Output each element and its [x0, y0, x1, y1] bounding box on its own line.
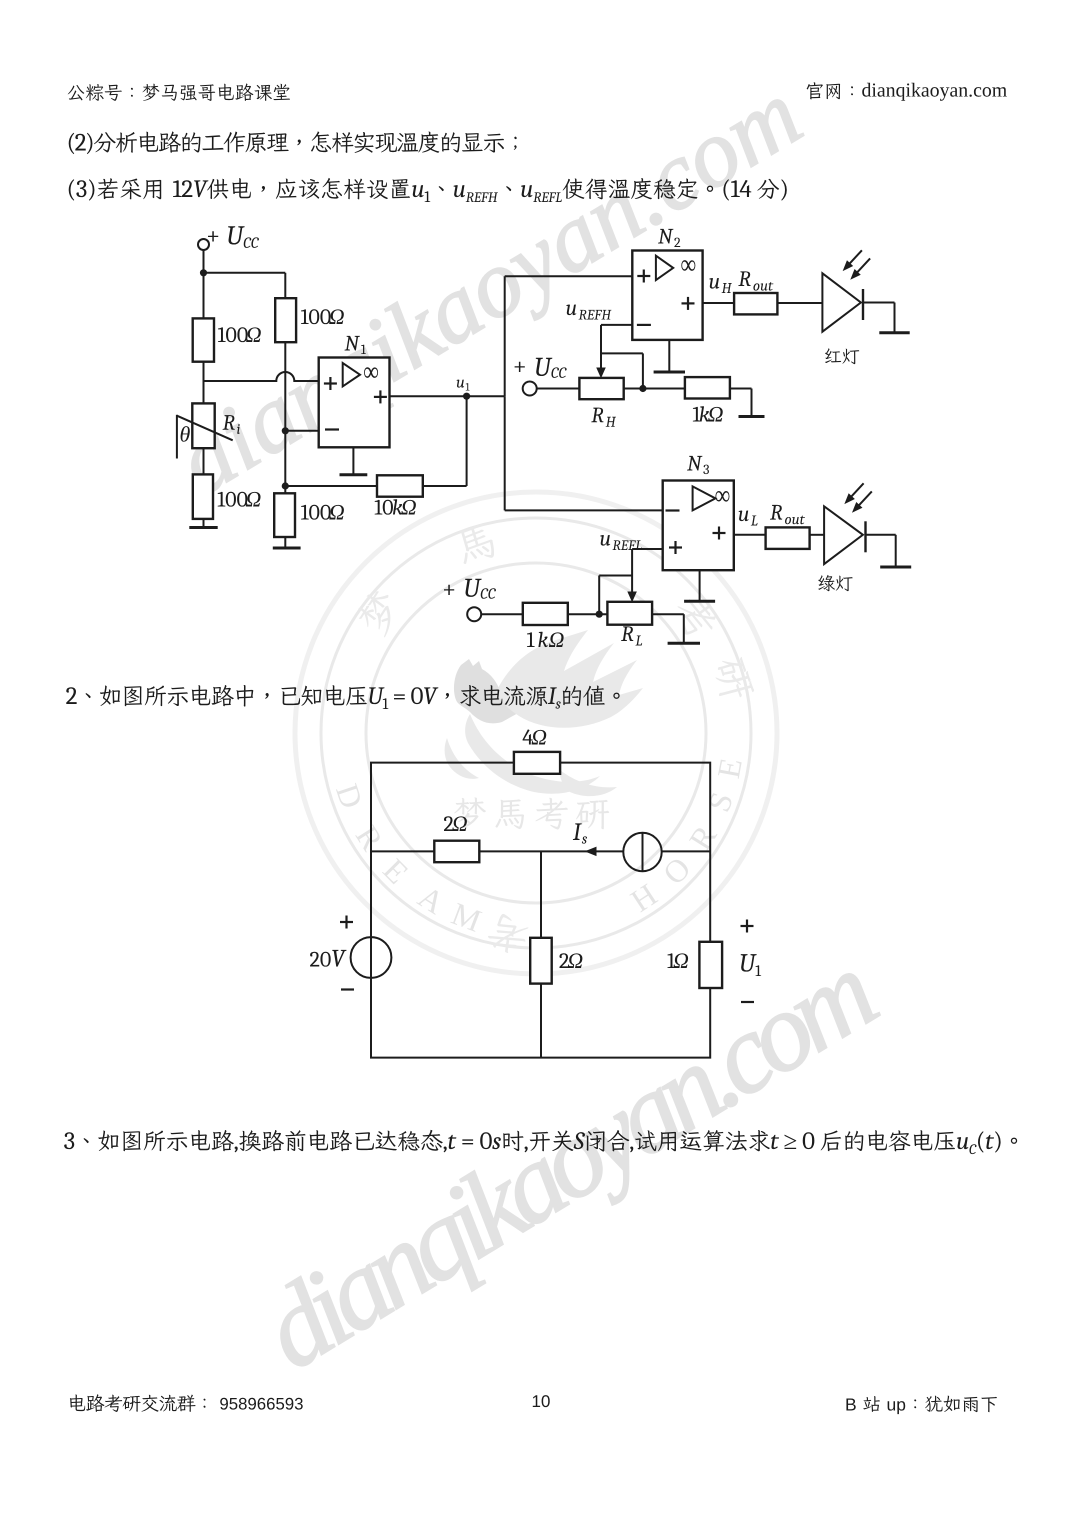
watermark DREAM text — [336, 783, 483, 932]
wire node D to R4 — [284, 486, 286, 493]
label RL — [621, 626, 642, 645]
label RH — [591, 408, 616, 427]
label 2ohm vertical — [559, 953, 582, 968]
terminal +Ucc top — [198, 239, 209, 250]
wire LED2 to ground — [866, 534, 896, 536]
wire Ucc to R7 1k — [481, 613, 523, 615]
label +Ucc top — [208, 226, 259, 248]
label uL — [739, 511, 758, 526]
wire Rout2 to LED2 — [810, 534, 825, 536]
resistor R4 100ohm bottom mid — [274, 493, 295, 537]
op-amp N2 output plus marker — [682, 297, 695, 310]
op-amp N2 triangle — [656, 256, 673, 280]
resistor R5 10kohm feedback — [377, 475, 423, 496]
label +Ucc RL — [444, 579, 496, 599]
label 20V — [310, 950, 346, 967]
wire R1 to node B — [203, 362, 205, 404]
label R1 100ohm — [218, 327, 261, 342]
label R2 100ohm — [301, 309, 344, 324]
label R7 1kohm — [527, 632, 564, 647]
wire mid column through hump — [284, 342, 286, 486]
resistor Rout2 — [766, 527, 810, 549]
arrow uREFH wiper — [597, 368, 605, 377]
ground op-amp N3 — [699, 570, 701, 600]
label uH — [709, 278, 732, 293]
ground R6 — [751, 389, 753, 416]
wire RH to R6 1k — [624, 388, 685, 390]
wire RL to ground — [652, 613, 684, 615]
wire mid column top — [284, 273, 286, 298]
voltage source 20V plus marker — [340, 916, 353, 929]
header left text — [68, 84, 290, 101]
label U1 — [741, 954, 761, 976]
wire Ucc to RH — [536, 388, 579, 390]
op-amp N1 box — [319, 358, 390, 448]
terminal +Ucc RL — [467, 607, 481, 621]
resistor 2ohm middle branch — [434, 841, 479, 863]
wire node C to opamp minus input — [285, 430, 318, 432]
footer page number — [533, 1395, 550, 1407]
op-amp N2 plus input marker — [637, 270, 650, 283]
wire uREFL to RL left node — [599, 575, 632, 577]
arrow Is direction — [586, 847, 596, 855]
op-amp N3 minus input marker — [666, 509, 680, 511]
circuit2 outer loop wire — [371, 763, 710, 1058]
op-amp N1 output plus marker — [374, 390, 387, 403]
wire N1 output to riser — [390, 395, 505, 397]
ground op-amp N1 — [352, 447, 354, 474]
op-amp N2 infinity — [681, 260, 695, 271]
LED1 cathode bar — [862, 289, 864, 320]
watermark seal characters band — [352, 522, 755, 955]
label Ri — [223, 415, 240, 434]
resistor 2ohm vertical — [530, 938, 552, 984]
ground left column — [203, 519, 205, 527]
watermark ring inner — [366, 563, 706, 903]
label red lamp — [825, 348, 859, 364]
node RL junction — [596, 611, 603, 618]
op-amp N3 infinity — [715, 491, 729, 502]
wire riser to N2 plus input — [505, 275, 633, 277]
LED1 light arrows — [846, 250, 862, 267]
LED2 light arrows — [848, 483, 864, 500]
node RH junction — [639, 385, 646, 392]
wire middle vertical branch — [540, 851, 542, 937]
potentiometer RH — [579, 378, 623, 399]
watermark pegasus — [445, 630, 643, 796]
resistor R1 100ohm left — [193, 318, 214, 361]
node A junction — [200, 269, 207, 276]
wire Ucc to node A — [203, 250, 205, 318]
voltage source 20V minus marker — [341, 988, 354, 990]
label 1ohm — [667, 953, 688, 968]
label Is — [573, 823, 587, 843]
label N1 — [345, 336, 366, 354]
wire middle horizontal — [371, 850, 624, 852]
node C junction minus input — [282, 427, 289, 434]
LED2 cathode bar — [864, 521, 866, 552]
wire R5 to node u1 — [423, 485, 467, 487]
wire riser vertical — [504, 276, 506, 396]
current source Is circle — [623, 833, 661, 871]
ground LED2 — [895, 535, 897, 566]
label R3 100ohm — [218, 492, 261, 507]
resistor Rout1 — [734, 293, 777, 314]
wire node D to R5 10k — [285, 485, 377, 487]
problem 3 text — [64, 1130, 1017, 1154]
op-amp N3 triangle — [693, 486, 716, 510]
wire Rout1 to LED1 — [777, 302, 822, 304]
ground RL — [683, 614, 685, 642]
label 4ohm — [522, 730, 546, 745]
LED2 green diode triangle — [824, 506, 863, 564]
ground LED1 — [894, 303, 896, 332]
label u1 — [457, 380, 470, 391]
resistor R2 100ohm right — [275, 298, 296, 342]
wire N2 minus input to uREFH — [601, 324, 632, 326]
label uREFH — [566, 305, 611, 320]
problem 2 text — [66, 685, 619, 709]
label R4 100ohm — [301, 505, 344, 520]
resistor 4ohm — [514, 752, 560, 774]
node u1 junction — [463, 393, 470, 400]
resistor R7 1kohm — [523, 603, 568, 625]
watermark diagonal dianqikaoyan.com bottom — [255, 948, 893, 1391]
footer right text — [846, 1396, 997, 1415]
wire N2 output — [703, 302, 735, 304]
ground mid column — [284, 537, 286, 547]
label uREFL — [600, 535, 642, 550]
wire N3 plus input to uREFL — [632, 548, 663, 550]
paragraph (3) text — [69, 178, 787, 202]
wire riser to N3 minus input — [505, 509, 663, 511]
LED1 red diode triangle — [822, 273, 861, 331]
wire node A to mid column — [204, 272, 286, 274]
watermark seal center text — [454, 797, 609, 829]
op-amp N3 box — [663, 481, 734, 571]
op-amp N3 output plus marker — [713, 527, 726, 540]
label 2ohm top — [444, 816, 467, 831]
wire R7 to RL — [568, 613, 608, 615]
resistor R3 100ohm bottom left — [193, 474, 213, 519]
wire uREFH to RH right node — [601, 352, 643, 354]
op-amp N1 minus input marker — [325, 428, 339, 430]
potentiometer RL — [607, 602, 652, 625]
wire R6 to ground — [730, 388, 752, 390]
label N2 — [658, 229, 680, 247]
label N3 — [687, 456, 709, 474]
header right text — [807, 82, 1007, 100]
paragraph (2) text — [69, 131, 517, 154]
op-amp N2 minus input marker — [637, 324, 651, 326]
watermark diagonal dianqikaoyan.com top — [170, 78, 815, 513]
label R6 1kohm — [693, 406, 723, 421]
thermistor Ri — [192, 403, 214, 448]
thermistor Ri symbol — [176, 415, 178, 459]
wire Ri to R3 — [203, 448, 205, 474]
label U1 minus marker — [741, 1001, 754, 1003]
label green lamp — [818, 575, 852, 591]
op-amp N1 plus input marker — [324, 377, 337, 390]
watermark HORSE text — [629, 758, 741, 912]
wire LED1 to ground — [863, 302, 895, 304]
resistor 1ohm — [699, 942, 722, 988]
watermark ring outer — [295, 492, 777, 974]
terminal +Ucc RH — [523, 382, 537, 396]
voltage source 20V circle — [351, 937, 392, 978]
label +Ucc RH — [515, 358, 567, 378]
label U1 plus marker — [741, 920, 754, 933]
label theta — [181, 426, 190, 442]
ground op-amp N2 — [668, 340, 670, 371]
op-amp N1 triangle — [343, 363, 360, 386]
node D junction feedback — [282, 482, 289, 489]
label R5 10kohm — [375, 499, 416, 514]
current source Is bar — [642, 833, 644, 871]
label Rout2 — [770, 505, 805, 524]
footer left text — [70, 1394, 303, 1412]
op-amp N3 plus input marker — [669, 541, 682, 554]
arrow uREFL wiper — [628, 592, 636, 601]
wire N3 output — [734, 534, 766, 536]
resistor R6 1kohm — [685, 377, 730, 398]
label Rout1 — [738, 271, 773, 290]
op-amp N1 infinity — [364, 367, 378, 378]
wire node B to opamp plus input with hump — [204, 372, 319, 381]
op-amp N2 box — [632, 251, 702, 340]
